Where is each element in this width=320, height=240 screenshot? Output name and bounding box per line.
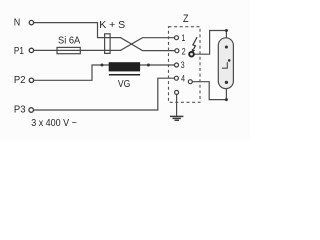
svg-text:K + S: K + S: [99, 19, 125, 31]
svg-text:2: 2: [182, 47, 186, 57]
svg-text:Z: Z: [183, 13, 189, 25]
svg-text:3 x 400 V ~: 3 x 400 V ~: [31, 118, 77, 130]
svg-text:Si 6A: Si 6A: [58, 35, 81, 46]
svg-text:P1: P1: [14, 45, 24, 56]
svg-text:1: 1: [181, 33, 185, 43]
svg-text:P3: P3: [14, 104, 26, 115]
svg-text:N: N: [14, 17, 21, 29]
svg-text:3: 3: [181, 60, 185, 70]
svg-text:VG: VG: [118, 78, 130, 90]
svg-text:P2: P2: [14, 75, 26, 86]
svg-text:4: 4: [181, 74, 185, 84]
